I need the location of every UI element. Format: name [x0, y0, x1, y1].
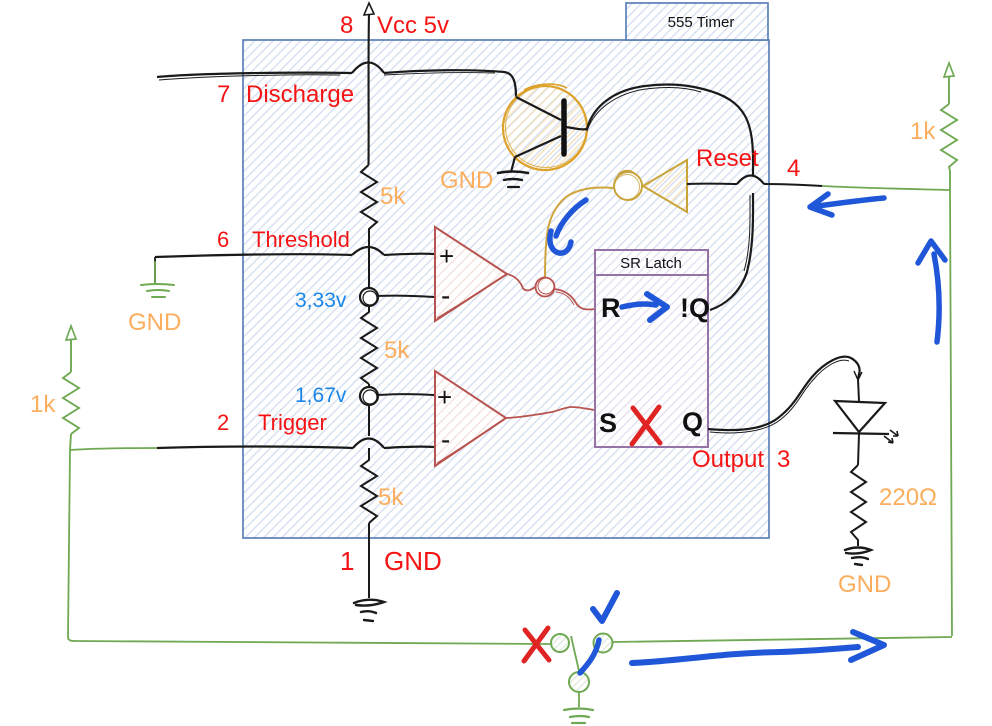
blue arc inside switch — [580, 640, 599, 673]
red X on S — [632, 407, 660, 444]
svg-text:GND: GND — [440, 167, 493, 194]
svg-text:5k: 5k — [378, 484, 404, 511]
svg-text:-: - — [441, 280, 450, 311]
svg-text:1: 1 — [340, 546, 354, 576]
wire: inverter input from bubble down to comparator node — [545, 187, 613, 277]
wire: Q output to LED — [708, 357, 860, 430]
resistor 220 ohm — [851, 465, 866, 546]
wire: node to R input — [554, 289, 595, 309]
ground (threshold stub, green) — [141, 262, 174, 297]
svg-text:Q: Q — [682, 407, 703, 437]
svg-text:GND: GND — [838, 571, 891, 598]
ground under transistor — [498, 172, 528, 188]
svg-text:1,67v: 1,67v — [295, 384, 347, 407]
blue arrow R to !Q — [622, 294, 667, 320]
wire: node2 to comparator2 plus — [378, 393, 434, 396]
wire: Vcc vertical lead into divider — [367, 14, 370, 165]
SR Latch box — [595, 250, 708, 447]
svg-text:GND: GND — [128, 309, 181, 336]
svg-text:1k: 1k — [30, 391, 56, 418]
svg-text:555 Timer: 555 Timer — [668, 14, 735, 31]
wire: right rail down — [950, 190, 952, 636]
wire: left rail down and bottom to switch — [68, 450, 551, 644]
LED D1 — [833, 379, 898, 465]
svg-text:8: 8 — [340, 12, 353, 39]
resistor 5k (middle) — [361, 306, 377, 384]
svg-text:GND: GND — [384, 546, 442, 576]
wire: 1k left to trigger — [70, 448, 157, 450]
wire: divider below node2 — [368, 404, 370, 436]
Vcc arrow head — [364, 3, 374, 15]
IC body 555 timer block — [243, 40, 769, 538]
svg-text:Output: Output — [692, 446, 764, 473]
svg-text:S: S — [599, 408, 617, 438]
wire: node1 to comparator minus — [378, 296, 434, 297]
wire: discharge horizontal with hop over Vcc line — [157, 73, 352, 77]
inverter (reset) — [643, 160, 687, 212]
node 1,67v — [360, 387, 378, 405]
555 Timer label tab — [626, 3, 768, 40]
wire: discharge to transistor — [384, 70, 516, 97]
svg-text:Reset: Reset — [696, 145, 759, 172]
svg-text:-: - — [441, 424, 450, 455]
svg-text:R: R — [601, 293, 621, 323]
big blue arrow bottom — [632, 632, 884, 663]
svg-text:Trigger: Trigger — [258, 410, 327, 435]
blue check mark — [593, 593, 617, 621]
svg-text:Vcc 5v: Vcc 5v — [377, 12, 449, 39]
svg-text:Threshold: Threshold — [252, 227, 350, 252]
wire: trigger horizontal with hop — [157, 447, 353, 449]
wire: transistor collector curve to !Q — [566, 85, 753, 175]
wire: reset green segment to right rail — [822, 186, 949, 190]
switch SW1 — [551, 634, 613, 693]
svg-text:5k: 5k — [380, 183, 406, 210]
svg-text:3,33v: 3,33v — [295, 289, 347, 312]
comparator U1 (threshold) — [435, 227, 507, 321]
wire: switch to ground — [578, 692, 580, 707]
transistor Q1 (discharge transistor) — [503, 84, 587, 172]
resistor 5k (bottom) — [361, 448, 377, 523]
wire: comparator1 output wiggle to node — [507, 274, 537, 290]
wire: switch right to right rail — [613, 637, 952, 642]
svg-text:2: 2 — [217, 410, 229, 435]
wire: pin1 lead below divider — [368, 523, 370, 598]
svg-text:!Q: !Q — [680, 293, 710, 323]
svg-text:5k: 5k — [384, 337, 410, 364]
blue curved arrow (inverter to node) — [550, 200, 586, 253]
comparator U2 (trigger) — [435, 371, 506, 466]
svg-text:+: + — [437, 382, 452, 412]
blue arrow pointing left under reset wire — [810, 194, 884, 215]
wire: reset from inverter to IC edge with hop — [687, 183, 737, 185]
svg-text:220Ω: 220Ω — [879, 484, 937, 511]
resistor 1k (left) — [63, 326, 79, 450]
blue arrow pointing up on right rail — [918, 241, 945, 342]
wire: between R2 and node2 — [368, 384, 370, 388]
node (comparator/inverter junction) — [536, 278, 555, 297]
svg-text:Discharge: Discharge — [246, 81, 354, 108]
svg-text:SR Latch: SR Latch — [620, 255, 682, 272]
wire: threshold gnd stub — [154, 257, 156, 283]
small arrowhead on wire at LED — [854, 371, 862, 380]
svg-text:+: + — [439, 241, 454, 271]
resistor 1k (right) — [941, 63, 957, 190]
node 3,33v — [360, 288, 378, 306]
ground (pin 1) — [354, 600, 384, 621]
wire: comparator2 output to S input — [506, 407, 595, 418]
red X on left switch contact — [524, 628, 549, 661]
ground (switch, green) — [564, 709, 593, 724]
svg-text:1k: 1k — [910, 118, 936, 145]
resistor 5k (top of divider) — [361, 165, 377, 232]
wire: divider between R1 and node1 — [368, 230, 370, 289]
wire hop over Vcc — [352, 63, 384, 74]
ground (LED) — [845, 548, 871, 566]
svg-text:6: 6 — [217, 227, 229, 252]
svg-text:7: 7 — [217, 81, 230, 108]
svg-text:4: 4 — [787, 155, 800, 182]
wire: threshold horizontal with hop — [155, 254, 352, 257]
svg-text:3: 3 — [777, 446, 790, 473]
inverter bubble — [614, 172, 642, 200]
